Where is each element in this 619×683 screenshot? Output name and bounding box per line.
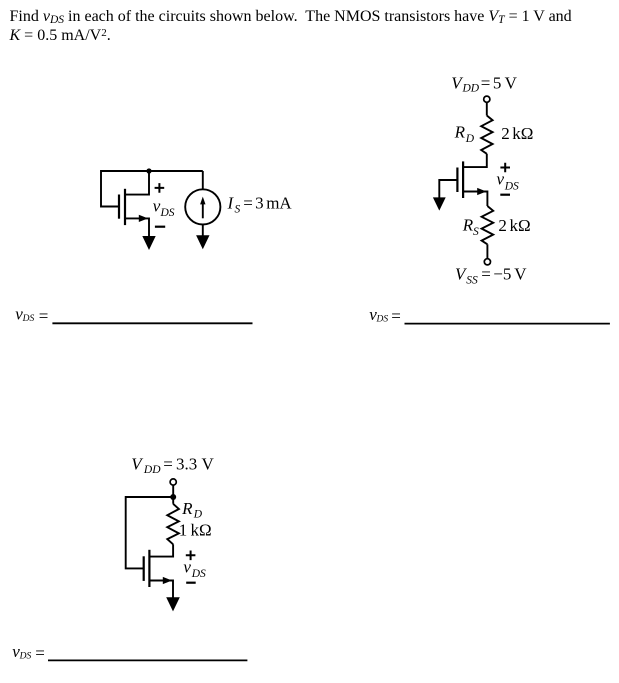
current source IS arrow <box>202 201 204 218</box>
resistor RD (2 kOhm) <box>481 116 492 154</box>
label - (c2) <box>500 194 510 196</box>
svg-text:1kΩ: 1kΩ <box>179 521 212 540</box>
wire RS to VSS terminal <box>486 244 488 258</box>
ground (current source) <box>196 235 209 249</box>
wire RD3 to Q3 drain <box>149 544 173 556</box>
label + (c1) <box>155 183 165 193</box>
wire current source top <box>202 171 204 189</box>
ground (Q1 source) <box>142 236 155 250</box>
svg-text:2kΩ: 2kΩ <box>501 124 533 143</box>
wire gate loop left (c3) <box>126 497 174 568</box>
transistor Q1 source arrow <box>139 215 148 222</box>
wire Q1 source <box>125 218 149 236</box>
svg-text:vDS: vDS <box>497 170 520 193</box>
blank line 1 <box>52 322 252 324</box>
wire gate loop left <box>101 170 119 207</box>
wire current source bottom <box>202 225 204 236</box>
node A junction dot <box>146 168 151 173</box>
svg-text:RD: RD <box>181 499 203 521</box>
wire VDD to RD <box>486 102 488 115</box>
wire node B to RD3 <box>172 497 174 504</box>
wire Q1 drain to top rail <box>125 171 149 195</box>
terminal VDD <box>484 96 490 102</box>
svg-text:IS=3mA: IS=3mA <box>227 194 293 216</box>
current source IS circle <box>185 189 220 224</box>
svg-text:VDD=3.3V: VDD=3.3V <box>131 454 214 476</box>
resistor RD3 (1 kOhm) <box>167 504 179 545</box>
wire VDD3 to node B <box>172 485 174 497</box>
transistor Q2 source arrow <box>477 188 486 195</box>
svg-text:vDS=: vDS= <box>15 305 48 326</box>
ground (Q2 gate) <box>433 197 446 210</box>
transistor Q2 channel bar <box>462 161 464 198</box>
svg-text:VDD=5V: VDD=5V <box>451 74 517 95</box>
blank line 2 <box>405 323 610 325</box>
wire Q2 source to RS <box>463 192 487 207</box>
transistor Q2 gate bar <box>456 168 458 193</box>
label + (c3) <box>186 551 196 561</box>
resistor RS (2 kOhm) <box>482 206 494 244</box>
svg-text:RD: RD <box>454 123 475 145</box>
label - (c1) <box>155 226 165 228</box>
svg-text:vDS=: vDS= <box>369 305 401 326</box>
svg-text:vDS: vDS <box>153 196 175 219</box>
transistor Q3 channel bar <box>148 550 150 587</box>
transistor Q3 gate bar <box>143 556 145 581</box>
label - (c3) <box>186 582 196 584</box>
terminal VSS <box>484 259 490 265</box>
svg-text:VSS=−5V: VSS=−5V <box>455 265 527 287</box>
wire RD to Q2 drain <box>463 154 487 167</box>
ground (Q3 source) <box>166 597 180 611</box>
node B junction dot <box>170 494 176 500</box>
label + (c2) <box>500 163 510 173</box>
wire Q2 gate to ground <box>439 180 457 198</box>
svg-text:RS: RS <box>462 216 479 238</box>
svg-text:2kΩ: 2kΩ <box>498 216 530 235</box>
blank line 3 <box>48 659 247 661</box>
problem statement text <box>10 7 610 46</box>
transistor Q3 source arrow <box>163 577 172 584</box>
transistor Q1 channel bar <box>124 189 126 225</box>
svg-text:vDS: vDS <box>183 558 206 581</box>
transistor Q1 gate bar <box>118 195 120 219</box>
svg-text:vDS=: vDS= <box>12 642 45 663</box>
wire Q3 source to ground <box>149 581 173 598</box>
terminal VDD3 <box>170 479 176 485</box>
wire top rail <box>101 170 203 172</box>
